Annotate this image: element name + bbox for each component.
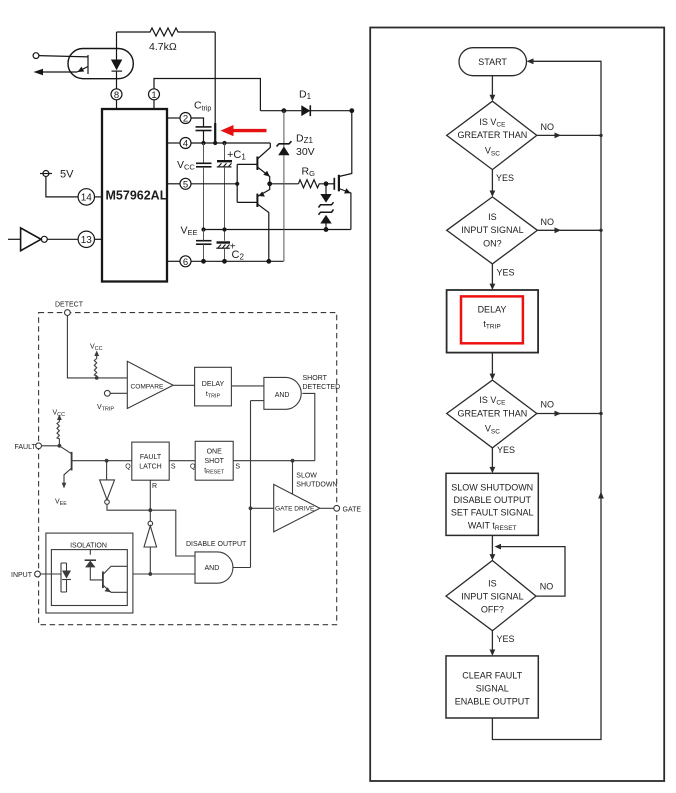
svg-text:YES: YES [497,267,515,277]
svg-text:NO: NO [540,582,554,592]
wire Ctrip to pin4 row [203,131,205,143]
svg-text:SHOT: SHOT [204,458,224,465]
transistor Q1 (upper NPN) [256,157,258,171]
block ONE SHOT [195,441,233,480]
svg-text:SHORT: SHORT [303,375,328,382]
inverter B (input path) [148,521,153,526]
svg-text:1: 1 [151,90,156,101]
zener DZ1 [283,111,285,147]
base rail of driver pair [237,164,257,202]
svg-text:S: S [171,464,176,471]
START terminator [459,48,527,76]
svg-text:SET FAULT SIGNAL: SET FAULT SIGNAL [451,508,534,518]
comparator COMPARE [127,361,173,408]
dashed boundary box [39,313,337,625]
svg-text:ONE: ONE [207,449,223,456]
diode D1 [301,105,310,116]
svg-text:IS: IS [488,212,497,222]
inverter gate [21,228,41,251]
svg-text:IS: IS [488,579,497,589]
photodiode [90,550,103,580]
pin 6 [180,256,191,267]
process box: DELAY tTRIP [447,290,538,353]
process box: SLOW SHUTDOWN [446,473,538,535]
AND1 output wire down to S row [302,393,314,460]
5V supply terminal [43,171,49,177]
optocoupler PC1 body [68,49,133,79]
pin6 row wire [191,260,284,262]
process box: CLEAR FAULT [446,656,538,718]
svg-text:6: 6 [183,257,188,268]
svg-text:YES: YES [497,445,515,455]
capacitor C2 (electrolytic) [217,241,231,243]
resistor RG [299,180,327,188]
opto input terminal [33,53,39,59]
return loop wire (right side) [492,61,601,739]
wire rail B pin4 to C1 [224,143,226,160]
wire INPUT into isolation [40,573,61,575]
FAULT input terminal [36,443,42,449]
pin 5 [180,178,191,189]
svg-text:5: 5 [183,179,188,190]
wire inverter A to disable rail [107,504,195,556]
svg-text:GREATER THAN: GREATER THAN [458,130,528,140]
svg-text:SHUTDOWN: SHUTDOWN [296,481,337,488]
wire 5V to pin14 [46,177,78,197]
AND1 lower input wire [251,400,264,402]
wire delay to AND1 [231,385,264,387]
output row to RG [270,183,299,185]
NO branch 1 [537,134,601,136]
svg-text:YES: YES [496,173,514,183]
svg-text:GATE: GATE [343,507,362,514]
VEE row wire [202,229,351,231]
block FAULT LATCH [132,442,169,480]
GATE DRIVE buffer [274,484,320,532]
wire rail B C2 to pin6 row [224,248,226,261]
opto emitter arrowhead [78,67,85,72]
capacitor C-vcc [196,162,212,164]
svg-text:DELAY: DELAY [202,381,225,388]
wire rail A VEE cap to pin6 row [203,230,205,262]
svg-text:INPUT SIGNAL: INPUT SIGNAL [461,225,523,235]
enable rail vertical wire [250,401,252,568]
svg-text:AND: AND [275,392,290,399]
wire inverter to pin13 [47,238,78,240]
NO return small loop of decision 4 [497,547,566,597]
svg-text:S: S [235,464,240,471]
inverter logic input wire [8,238,21,240]
svg-text:DELAY: DELAY [478,304,507,314]
svg-text:COMPARE: COMPARE [131,384,164,391]
wire pin8 stub to IC [116,100,118,109]
YES wire 4 [491,631,493,654]
svg-text:Q: Q [190,464,196,471]
wire compare to delay [173,384,195,386]
isolation LED branch [61,563,67,592]
wire pin1 stub to IC [153,100,155,109]
opto phototransistor [87,55,89,74]
svg-text:SIGNAL: SIGNAL [476,684,509,694]
wire pin1 up and right to D1 branch [154,79,260,111]
arrowhead into START [527,58,534,64]
svg-text:ENABLE OUTPUT: ENABLE OUTPUT [455,697,531,707]
resistor R1 4.7k top row [117,28,216,36]
svg-text:NO: NO [541,122,555,132]
pin 14 [78,189,94,205]
inverter A (from Q) [106,461,108,480]
svg-text:GATE DRIVE: GATE DRIVE [275,506,315,513]
D1 row wire [260,110,301,112]
svg-text:2: 2 [183,114,188,125]
wire DETECT to comparator [67,316,127,378]
svg-text:DETECT: DETECT [55,302,84,309]
svg-text:FAULT: FAULT [140,454,162,461]
R input wire [149,480,151,521]
wire SLOW box to decision 4 [491,535,493,558]
svg-text:ON?: ON? [483,238,502,248]
capacitor C-vee [196,240,212,242]
GATE output terminal [320,507,334,509]
pin 4 [180,138,191,149]
wire DELAY to decision 3 [491,353,493,378]
up arrowhead on return loop [598,492,604,499]
svg-text:GREATER THAN: GREATER THAN [458,408,528,418]
NO branch 3 [537,413,601,415]
zener ZD2 [320,194,331,203]
decision: IS VCE GREATER THAN VSC (1) [447,101,537,169]
pin5 row wire [191,183,237,185]
svg-text:SLOW SHUTDOWN: SLOW SHUTDOWN [451,482,533,492]
wire resistor down to pin4 node [214,32,216,124]
wire pin2 to Ctrip [191,118,204,126]
wire rail B C1 down to pin6 row [224,167,226,241]
svg-text:Q: Q [125,464,131,471]
red annotation arrow [221,125,267,136]
svg-text:4.7kΩ: 4.7kΩ [149,41,177,53]
svg-text:CLEAR FAULT: CLEAR FAULT [462,671,522,681]
wire isolation output to AND2 [133,573,195,575]
svg-text:DETECTED: DETECTED [303,384,341,391]
decision: IS INPUT SIGNAL ON? [447,197,538,264]
transistor Q4 (fault) [71,452,73,471]
svg-text:SLOW: SLOW [296,473,317,480]
svg-text:13: 13 [81,235,93,246]
svg-text:YES: YES [497,634,515,644]
AND gate U3 (disable output) [195,552,233,583]
wire RG node down to zeners [325,184,327,194]
YES wire 2 [491,264,493,288]
pin 8 [111,89,122,100]
pin 1 [149,89,160,100]
svg-text:AND: AND [205,565,220,572]
IGBT Q3 [339,111,352,177]
output node dot [267,181,272,186]
block DELAY tTRIP [195,367,232,406]
Vcc pull-up resistor (fault) [57,422,59,446]
node dots on pin4 row [201,141,205,145]
wire RG node to gate [326,183,334,185]
svg-text:5V: 5V [60,169,74,181]
slow shutdown tap wire [292,461,294,495]
AND gate U2 (short detect) [264,377,301,409]
opto LED wire from resistor row [116,32,118,60]
zener ZD3 [319,210,334,215]
svg-text:INPUT SIGNAL: INPUT SIGNAL [461,592,523,602]
svg-text:LATCH: LATCH [139,463,161,470]
svg-text:ISOLATION: ISOLATION [70,543,107,550]
YES wire 1 [491,170,493,195]
svg-text:R: R [152,483,157,490]
flowchart frame [370,28,664,782]
pin 13 [78,231,94,247]
VTRIP input terminal [104,390,110,396]
svg-text:OFF?: OFF? [481,605,504,615]
decision: IS INPUT SIGNAL OFF? [446,561,536,631]
Vcc pull-up resistor (compare) [94,359,96,378]
svg-text:INPUT: INPUT [11,572,33,579]
DETECT terminal [65,310,71,316]
svg-text:NO: NO [541,400,555,410]
wire opto input [39,56,88,57]
ISOLATION outer box [46,533,133,613]
svg-text:4: 4 [183,139,188,150]
INPUT terminal [35,571,41,577]
LED diode [62,571,71,579]
svg-text:NO: NO [541,217,555,227]
AND2 output wire [233,567,251,569]
svg-text:START: START [478,57,507,67]
pin4 row wire [191,142,270,144]
ISOLATION inner box [51,550,127,606]
svg-text:FAULT: FAULT [15,444,37,451]
wire rail A pin4 to Vcc cap [203,143,205,163]
NO branch 2 [537,229,601,231]
opto LED diode [111,60,122,71]
decision: IS VCE GREATER THAN VSC (2) [447,380,537,448]
red highlight rectangle [461,296,523,343]
capacitor Ctrip [196,126,212,128]
wire LED to pin8 [116,71,118,89]
wire START to D1 [491,76,493,100]
svg-text:M57962AL: M57962AL [106,189,168,203]
photo transistor [102,571,104,588]
svg-text:14: 14 [81,193,93,204]
wire to gate drive input [251,507,274,509]
YES wire 3 [491,448,493,471]
transistor Q2 (lower PNP) [256,194,258,207]
S row wire (latch-oneshot row) [72,460,315,462]
wire rail A Vcc cap to VEE row [203,167,205,230]
capacitor C1 (electrolytic) [217,160,232,162]
IC U1 M57962AL body [102,109,167,282]
pin 2 [180,113,191,124]
opto output arrow wire [36,71,77,73]
svg-text:8: 8 [114,90,119,101]
svg-text:DISABLE OUTPUT: DISABLE OUTPUT [186,541,247,548]
svg-text:30V: 30V [296,146,315,158]
svg-text:DISABLE OUTPUT: DISABLE OUTPUT [453,495,531,505]
